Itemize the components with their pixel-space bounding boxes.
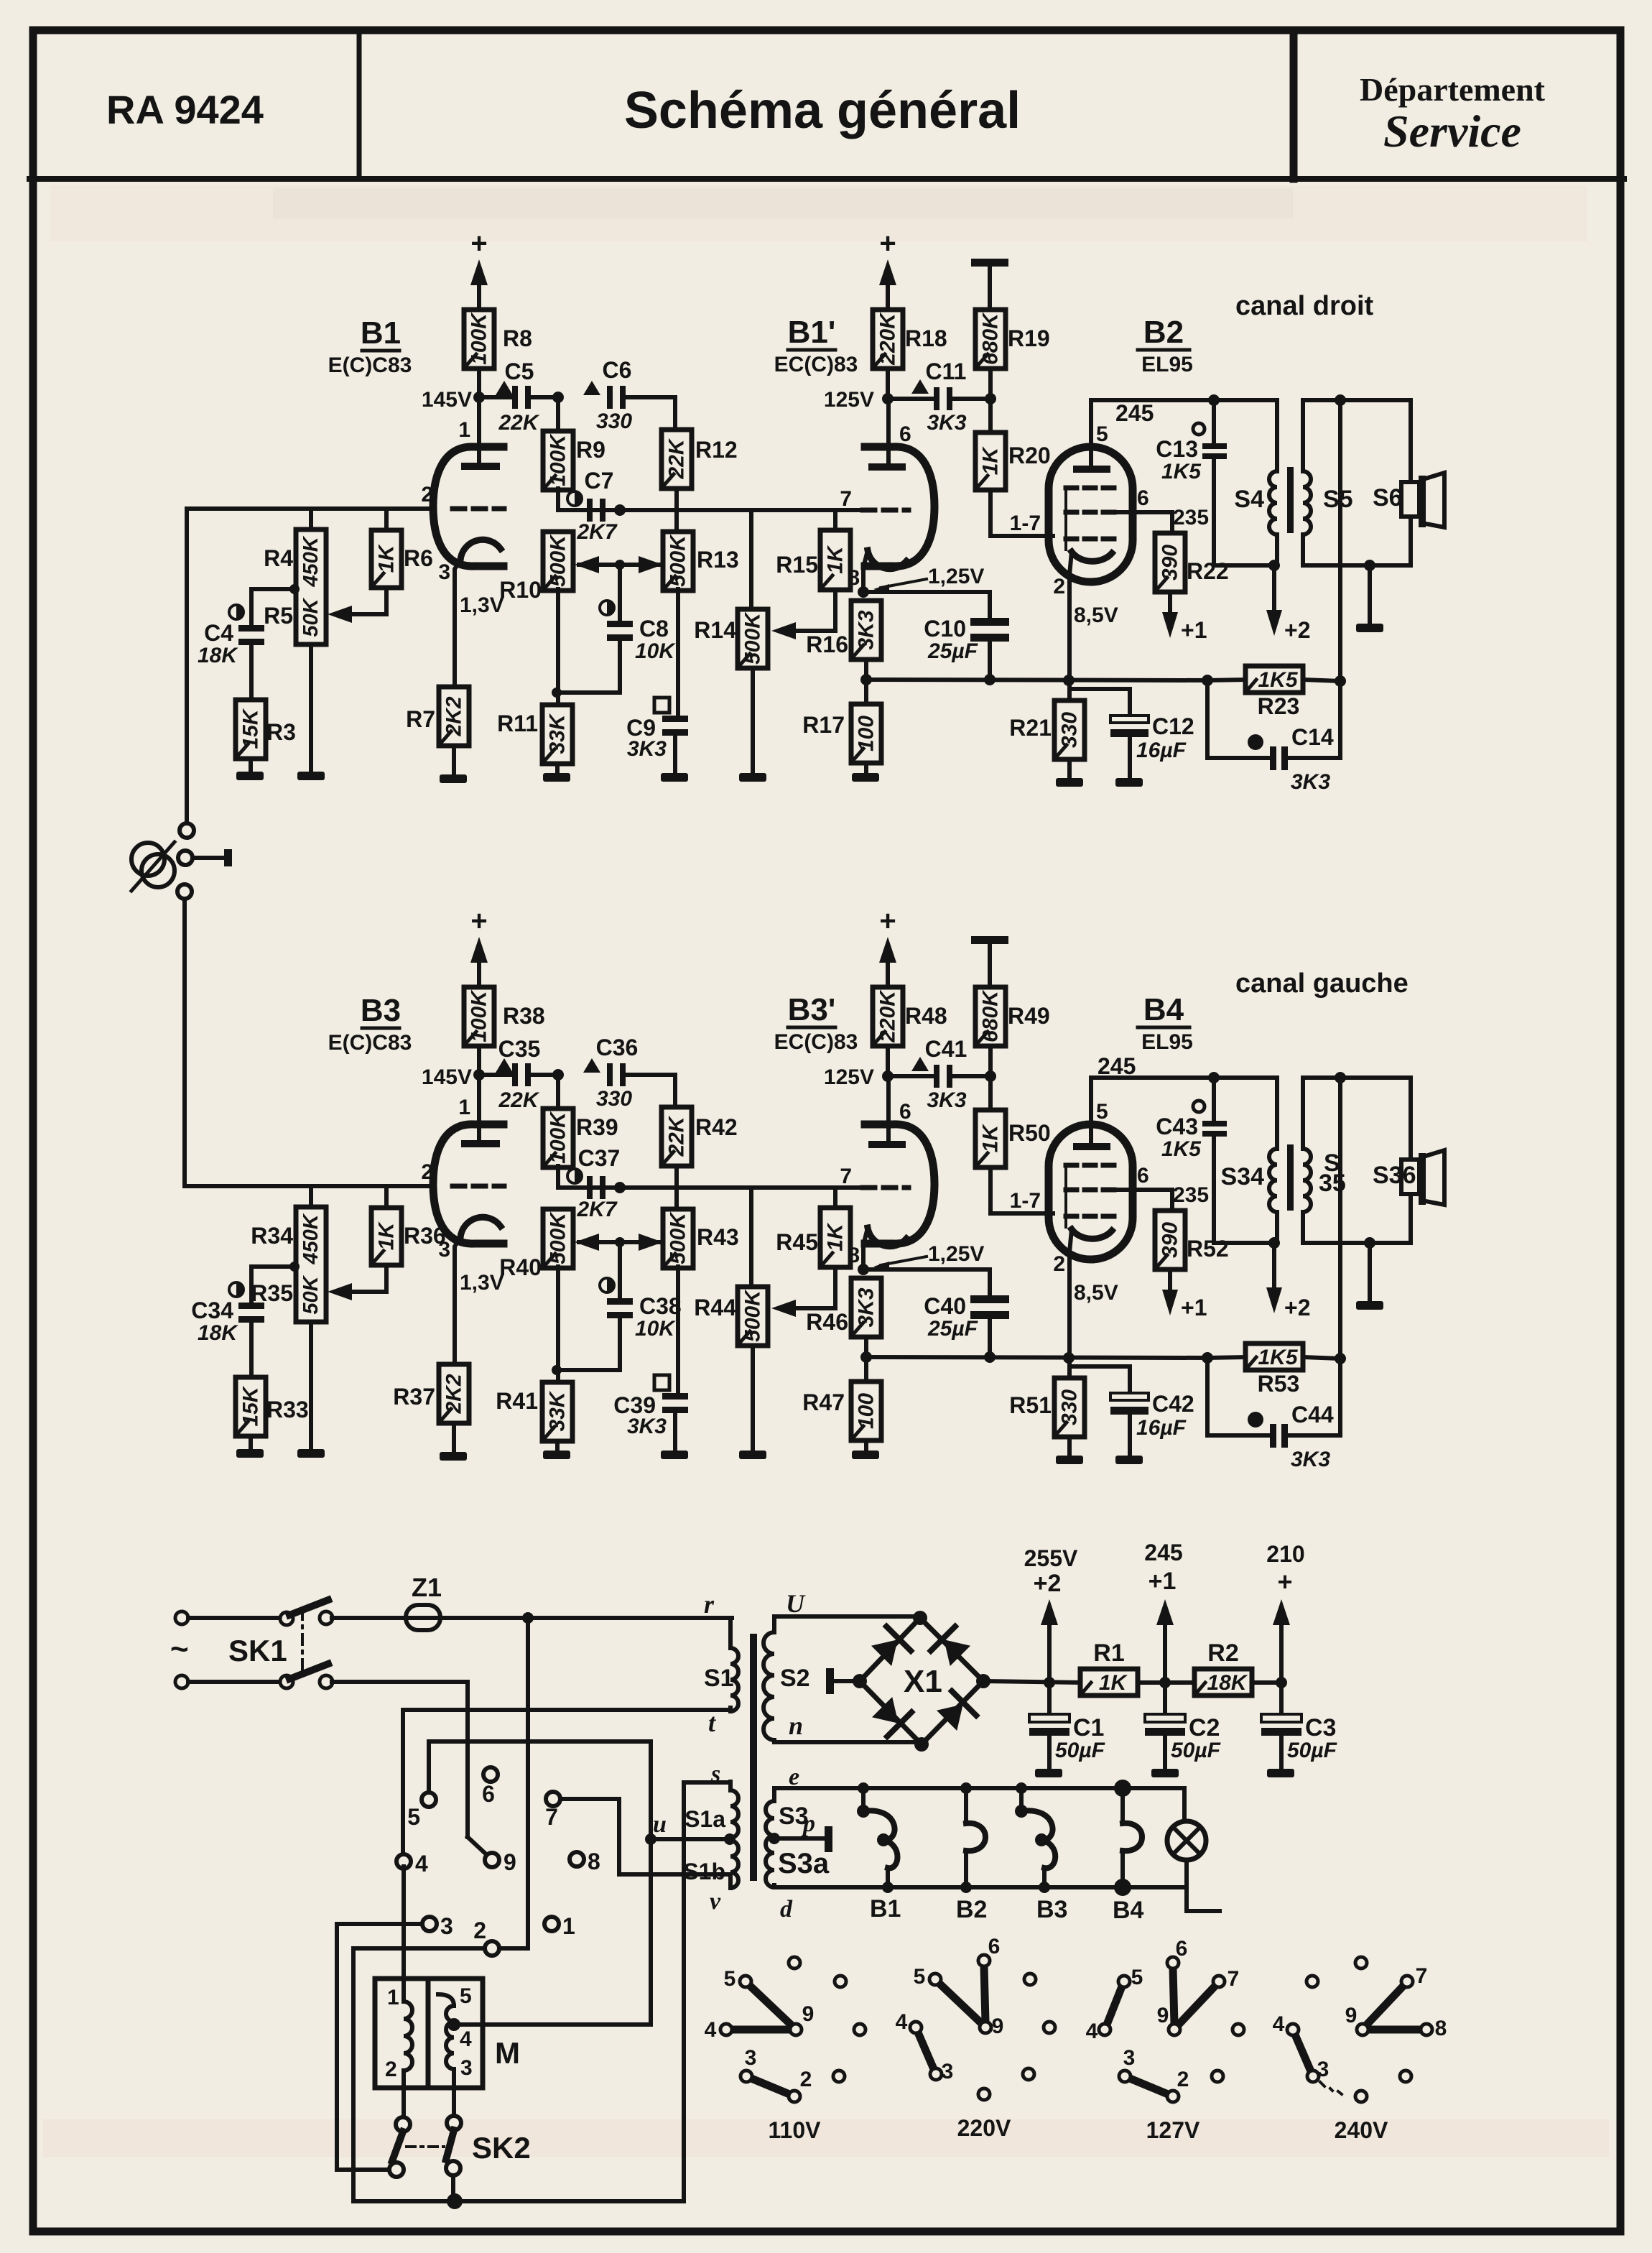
svg-text:390: 390 (1159, 1222, 1182, 1258)
svg-text:6: 6 (1176, 1937, 1188, 1961)
svg-text:p: p (801, 1810, 815, 1837)
wire 145V rail (479, 1073, 514, 1077)
pentode B4 grids (1066, 1163, 1118, 1168)
svg-text:125V: 125V (824, 388, 874, 412)
wiper arrows R10-R13 (579, 1240, 661, 1244)
svg-text:500K: 500K (547, 1211, 570, 1264)
svg-text:8: 8 (1435, 2017, 1447, 2040)
svg-text:C11: C11 (926, 358, 967, 384)
svg-text:4: 4 (1273, 2012, 1285, 2036)
resistor R47 100 (864, 1357, 868, 1382)
svg-text:X1: X1 (904, 1664, 942, 1699)
svg-text:R51: R51 (1009, 1392, 1052, 1418)
capacitor C3 50uF (1279, 1683, 1284, 1715)
resistor R17 100 (864, 680, 868, 704)
svg-text:1K: 1K (979, 445, 1003, 475)
resistor R15 1K (833, 510, 837, 530)
resistor R38 100K (464, 987, 494, 1046)
svg-text:canal droit: canal droit (1235, 291, 1373, 321)
svg-text:+1: +1 (1148, 1568, 1177, 1595)
svg-text:U: U (786, 1589, 806, 1618)
ground R44 (739, 1451, 766, 1459)
svg-text:Service: Service (1383, 106, 1521, 157)
tap p bar (774, 1836, 825, 1841)
svg-text:R39: R39 (576, 1114, 618, 1140)
svg-text:R47: R47 (802, 1389, 845, 1415)
ground R7 (440, 774, 467, 783)
svg-text:2: 2 (385, 2058, 397, 2081)
node cathode junction (858, 1264, 869, 1275)
resistor R7 2K2 (439, 687, 469, 746)
svg-text:R11: R11 (497, 711, 538, 736)
svg-text:R48: R48 (905, 1003, 947, 1029)
potentiometer R43 500K (663, 1209, 693, 1268)
svg-text:R22: R22 (1187, 558, 1229, 584)
resistor R12 22K (662, 430, 692, 489)
svg-text:3: 3 (1123, 2046, 1136, 2070)
svg-text:9: 9 (992, 2014, 1004, 2038)
svg-text:245: 245 (1098, 1053, 1136, 1079)
svg-text:R41: R41 (496, 1388, 538, 1414)
capacitor C13 1K5 (1193, 423, 1205, 435)
wire heater bus bottom (774, 1885, 1184, 1889)
svg-text:+: + (470, 228, 487, 259)
wire input to lower channel (182, 899, 187, 1186)
arrow +2 (1272, 565, 1276, 610)
triode B1 cathode (460, 540, 501, 560)
capacitor C35 22K (496, 1058, 513, 1073)
AC input bar (826, 1668, 834, 1694)
svg-text:R19: R19 (1008, 325, 1050, 351)
svg-text:16µF: 16µF (1136, 1416, 1187, 1440)
triode B3' envelope (865, 1124, 934, 1244)
svg-text:C4: C4 (204, 620, 233, 646)
resistor R33 15K (236, 1377, 266, 1436)
svg-text:B1: B1 (870, 1895, 901, 1923)
svg-text:v: v (710, 1888, 721, 1915)
svg-text:+: + (879, 905, 896, 937)
pentode B2 grids (1066, 486, 1118, 491)
capacitor C12 16uF (1069, 687, 1130, 691)
resistor R2 18K (1194, 1669, 1252, 1695)
svg-text:+: + (879, 228, 896, 259)
svg-text:3: 3 (942, 2060, 954, 2083)
node u (724, 1833, 735, 1845)
svg-text:C37: C37 (578, 1145, 621, 1171)
svg-text:127V: 127V (1146, 2117, 1200, 2143)
svg-text:1K5: 1K5 (1258, 668, 1298, 692)
svg-text:EC(C)83: EC(C)83 (774, 1030, 858, 1054)
svg-text:C10: C10 (924, 616, 966, 642)
svg-text:390: 390 (1159, 545, 1182, 580)
svg-text:C2: C2 (1189, 1714, 1220, 1741)
svg-text:R52: R52 (1187, 1236, 1229, 1262)
wire S5 top to feedback (1338, 1078, 1342, 1359)
capacitor C14 3K3 (1205, 680, 1210, 758)
capacitor C34 18K (229, 1282, 243, 1297)
resistor R19 680K (975, 310, 1006, 369)
wire grid row (187, 506, 433, 511)
svg-text:3: 3 (438, 560, 450, 584)
heater winding S3 (772, 1788, 776, 1801)
svg-text:Département: Département (1360, 71, 1546, 108)
wire cathode row (863, 1267, 990, 1272)
svg-text:2K2: 2K2 (442, 696, 466, 736)
svg-text:100: 100 (855, 1393, 878, 1429)
svg-text:1K5: 1K5 (1258, 1346, 1298, 1369)
resistor R1 1K (1080, 1669, 1138, 1695)
svg-text:5: 5 (724, 1967, 736, 1991)
capacitor C41 3K3 (888, 1074, 935, 1078)
svg-text:9: 9 (1157, 2004, 1169, 2027)
svg-text:2: 2 (421, 483, 433, 506)
svg-text:canal gauche: canal gauche (1235, 968, 1409, 999)
svg-text:22K: 22K (498, 411, 539, 435)
terminal upper (180, 823, 194, 838)
diode X1 bottom-left (870, 1695, 911, 1736)
selector contact 2 (485, 1941, 499, 1956)
potentiometer R13 500K (663, 532, 693, 591)
primary S34 (1275, 1078, 1279, 1149)
svg-text:R37: R37 (393, 1384, 435, 1410)
capacitor C7 2K7 (567, 491, 582, 506)
svg-text:220K: 220K (876, 989, 900, 1043)
svg-text:33K: 33K (546, 713, 570, 754)
svg-text:2: 2 (1177, 2068, 1189, 2091)
svg-text:S6: S6 (1373, 484, 1403, 512)
resistor R8 100K (464, 310, 494, 369)
svg-text:210: 210 (1266, 1541, 1304, 1567)
svg-text:500K: 500K (547, 534, 570, 587)
svg-text:5: 5 (1131, 1966, 1143, 1989)
svg-text:u: u (653, 1811, 667, 1838)
svg-text:330: 330 (1058, 1389, 1082, 1425)
svg-text:100K: 100K (468, 989, 491, 1042)
wire anode 245 rail (1091, 398, 1277, 402)
svg-text:6: 6 (988, 1935, 1001, 1958)
triode B3 grid (453, 1184, 504, 1189)
svg-text:R35: R35 (251, 1280, 293, 1306)
dash marks near 240V pin 3 (1320, 2082, 1342, 2094)
svg-text:R36: R36 (404, 1223, 446, 1249)
transformer core power (750, 1634, 757, 1881)
wire grid to pentode (988, 490, 993, 536)
pentode B2 cathode (1072, 552, 1112, 561)
svg-text:R18: R18 (905, 325, 947, 351)
capacitor C1 50uF (1047, 1683, 1052, 1715)
transformer primary S1 (730, 1616, 732, 1620)
mains terminals (175, 1611, 188, 1624)
resistor R11 33K (542, 705, 572, 764)
svg-text:+2: +2 (1284, 617, 1310, 643)
svg-text:500K: 500K (667, 534, 690, 587)
ground R21 (1056, 778, 1083, 787)
svg-text:18K: 18K (198, 1321, 238, 1345)
ground R33 (236, 1449, 264, 1458)
svg-text:8: 8 (848, 1244, 860, 1267)
selector diagram 240V (1366, 1986, 1403, 2025)
header divider right (1290, 33, 1298, 179)
wire S1 bottom to contact 4 (403, 1708, 730, 1712)
svg-text:EL95: EL95 (1141, 1030, 1193, 1054)
svg-text:R49: R49 (1008, 1003, 1050, 1029)
svg-text:3K3: 3K3 (627, 737, 667, 761)
svg-text:18K: 18K (198, 644, 238, 667)
ground R17 (852, 773, 879, 782)
resistor R46 3K3 (851, 1278, 881, 1337)
terminal middle with stylus bar (178, 851, 192, 865)
svg-text:E(C)C83: E(C)C83 (328, 353, 412, 377)
svg-text:3K3: 3K3 (855, 1287, 878, 1327)
svg-text:R14: R14 (694, 617, 736, 643)
svg-text:100K: 100K (468, 312, 491, 365)
svg-text:5: 5 (407, 1804, 420, 1830)
wire u down to motor (649, 1839, 653, 2025)
svg-text:7: 7 (840, 487, 852, 511)
heater B3 (1019, 1788, 1024, 1811)
resistor R45 1K (833, 1188, 837, 1208)
svg-text:R13: R13 (697, 547, 739, 573)
selector contact 1 (544, 1917, 559, 1931)
svg-text:R16: R16 (806, 632, 848, 657)
svg-text:S2: S2 (780, 1665, 810, 1692)
selector contact 9 (485, 1853, 499, 1867)
wiper arrow R14 (796, 629, 835, 633)
svg-text:EL95: EL95 (1141, 353, 1193, 376)
svg-text:C41: C41 (925, 1036, 967, 1062)
triode B1 grid (453, 506, 504, 512)
arrow 245 +1 (1163, 1625, 1167, 1683)
svg-text:1K: 1K (375, 1221, 399, 1250)
svg-text:R5: R5 (264, 603, 293, 629)
svg-text:B4: B4 (1113, 1897, 1144, 1924)
header divider left (357, 33, 362, 179)
wire grid to pentode (988, 1167, 993, 1213)
svg-text:680K: 680K (979, 312, 1003, 365)
svg-text:15K: 15K (239, 708, 263, 749)
ground R11 (543, 773, 570, 782)
svg-text:2K2: 2K2 (442, 1374, 466, 1414)
selector contact 5 (422, 1792, 436, 1807)
svg-text:500K: 500K (667, 1211, 690, 1264)
svg-text:7: 7 (1228, 1967, 1240, 1991)
svg-text:C13: C13 (1156, 436, 1198, 462)
svg-text:5: 5 (914, 1965, 926, 1989)
svg-text:R38: R38 (503, 1003, 545, 1029)
selector contact 8 (570, 1852, 584, 1866)
svg-text:1K: 1K (1099, 1671, 1128, 1695)
svg-text:1K: 1K (979, 1123, 1003, 1152)
svg-text:3: 3 (440, 1913, 453, 1939)
arrow +1 (1168, 592, 1172, 612)
svg-text:25µF: 25µF (927, 1317, 978, 1341)
svg-text:50µF: 50µF (1055, 1739, 1105, 1762)
svg-text:255V: 255V (1024, 1545, 1078, 1571)
svg-text:10K: 10K (635, 1317, 676, 1341)
wire feedback row (866, 680, 1207, 680)
resistor R20 1K (988, 399, 993, 432)
svg-text:R43: R43 (697, 1224, 739, 1250)
winding S1a (728, 1782, 733, 1790)
potentiometer R34/R35 450K/50K (309, 1186, 313, 1207)
svg-text:R21: R21 (1009, 715, 1052, 741)
ground R37 (440, 1452, 467, 1461)
svg-text:7: 7 (840, 1165, 852, 1188)
svg-text:5: 5 (1096, 422, 1108, 446)
switch SK1 (188, 1616, 280, 1620)
resistor R48 220K (873, 987, 903, 1046)
svg-text:S1: S1 (704, 1665, 734, 1692)
triode B3' grid (863, 1185, 909, 1190)
svg-text:R17: R17 (802, 712, 845, 738)
selector diagram 220V (939, 1984, 981, 2023)
secondary S5 (1301, 400, 1305, 471)
resistor R51 330 (1067, 1358, 1072, 1378)
ground speaker (1368, 1243, 1372, 1301)
heater B4 (1120, 1788, 1125, 1823)
svg-text:S34: S34 (1221, 1163, 1265, 1190)
svg-text:B2: B2 (1143, 315, 1184, 350)
svg-text:3K3: 3K3 (627, 1415, 667, 1438)
wire contact 2 down (353, 1946, 485, 1951)
svg-text:C43: C43 (1156, 1114, 1198, 1139)
capacitor C40 25uF (988, 1269, 992, 1295)
resistor R9 100K (556, 397, 560, 431)
capacitor C11 3K3 (888, 397, 935, 401)
wire phase to contact 2 (526, 1618, 530, 1948)
svg-text:R1: R1 (1093, 1639, 1124, 1667)
svg-text:8,5V: 8,5V (1074, 1281, 1118, 1305)
selector contact 6 (483, 1767, 498, 1782)
svg-text:+2: +2 (1284, 1295, 1310, 1320)
bridge rectifier X1 (860, 1618, 983, 1744)
potentiometer R44 500K (749, 1188, 753, 1287)
svg-text:n: n (789, 1711, 803, 1740)
arrow 210 + (1279, 1625, 1284, 1683)
svg-text:3K3: 3K3 (927, 1088, 966, 1112)
selector diagram 110V (750, 1986, 792, 2025)
wire coupling row (558, 508, 863, 512)
potentiometer R40 500K (543, 1209, 573, 1268)
svg-text:R33: R33 (266, 1397, 309, 1422)
wire 145V rail (479, 395, 514, 399)
wire speaker loop (1303, 398, 1411, 402)
svg-text:R42: R42 (695, 1114, 738, 1140)
pot tap to C34 (289, 1262, 300, 1272)
pentode B4 anode pin5 (1089, 1078, 1093, 1144)
wire SK1 to contact 9 (332, 1680, 468, 1684)
svg-text:R8: R8 (503, 325, 532, 351)
svg-text:+: + (470, 905, 487, 937)
capacitor C2 50uF (1163, 1683, 1167, 1715)
node 145V (473, 392, 485, 403)
svg-text:100K: 100K (547, 1111, 570, 1164)
node cathode junction (858, 586, 869, 598)
svg-text:R23: R23 (1258, 693, 1300, 719)
wire S2 to bridge (774, 1614, 920, 1619)
svg-text:1: 1 (458, 1096, 470, 1119)
svg-text:3: 3 (1317, 2058, 1330, 2081)
wire cathode row (863, 590, 990, 594)
node 145V (473, 1069, 485, 1081)
svg-text:1,3V: 1,3V (460, 1271, 504, 1295)
svg-text:1,25V: 1,25V (928, 1242, 984, 1266)
svg-text:1,25V: 1,25V (928, 565, 984, 588)
ground R47 (852, 1451, 879, 1459)
svg-text:500K: 500K (741, 611, 765, 665)
resistor R6 1K (384, 509, 389, 530)
svg-text:100: 100 (855, 716, 878, 751)
capacitor C44 3K3 (1205, 1358, 1210, 1435)
svg-text:S36: S36 (1373, 1162, 1416, 1189)
svg-text:2: 2 (421, 1160, 433, 1184)
ground pot R35 (309, 1322, 313, 1449)
svg-text:245: 245 (1144, 1540, 1182, 1565)
primary S4 (1275, 400, 1279, 471)
svg-text:S4: S4 (1234, 486, 1264, 513)
svg-text:SK1: SK1 (228, 1634, 287, 1667)
motor coil 1-2 (402, 1866, 406, 2002)
svg-text:C7: C7 (585, 468, 614, 494)
svg-text:R3: R3 (266, 719, 296, 745)
pentode B2 anode pin5 (1089, 400, 1093, 466)
svg-text:4: 4 (415, 1851, 428, 1877)
svg-text:2: 2 (1053, 1252, 1065, 1276)
triode B1' anode (886, 402, 891, 465)
wiper arrow R44 (796, 1306, 835, 1310)
resistor R42 22K (662, 1107, 692, 1166)
svg-text:S1b: S1b (683, 1859, 725, 1884)
wire contact 7 to v (560, 1797, 619, 1801)
svg-text:330: 330 (596, 410, 632, 433)
svg-text:3K3: 3K3 (927, 411, 966, 435)
svg-text:3: 3 (745, 2046, 757, 2070)
svg-text:R15: R15 (776, 552, 818, 578)
header rule (29, 176, 1624, 182)
svg-text:1,3V: 1,3V (460, 593, 504, 617)
capacitor C8 10K (618, 565, 622, 621)
svg-text:500K: 500K (741, 1289, 765, 1342)
pot tap to C4 (289, 584, 300, 594)
resistor R50 1K (988, 1076, 993, 1110)
diode X1 top-left (869, 1627, 911, 1668)
arrow 255V +2 (1047, 1625, 1052, 1683)
svg-text:3K3: 3K3 (1291, 770, 1330, 794)
pickup cartridge (131, 843, 164, 876)
resistor R39 100K (556, 1075, 560, 1109)
triode B1' envelope (865, 447, 934, 566)
ground C39 (661, 1451, 688, 1459)
svg-text:220K: 220K (876, 312, 900, 366)
motor M box (375, 1979, 483, 2088)
motor coil 5-4-3 (438, 1994, 454, 2006)
svg-text:R12: R12 (695, 437, 738, 463)
svg-text:M: M (495, 2036, 520, 2070)
svg-text:R44: R44 (694, 1295, 736, 1320)
svg-text:50µF: 50µF (1171, 1739, 1221, 1762)
svg-text:22K: 22K (498, 1088, 539, 1112)
capacitor C10 25uF (988, 592, 992, 618)
svg-text:C40: C40 (924, 1293, 966, 1319)
triode B1 anode (477, 397, 481, 464)
ground speaker (1368, 565, 1372, 624)
capacitor C4 18K (229, 605, 243, 619)
svg-text:9: 9 (802, 2002, 815, 2026)
svg-text:S3a: S3a (778, 1848, 830, 1879)
resistor R53 1K5 (1207, 1357, 1245, 1358)
svg-text:9: 9 (504, 1849, 516, 1875)
svg-text:C6: C6 (603, 357, 632, 383)
